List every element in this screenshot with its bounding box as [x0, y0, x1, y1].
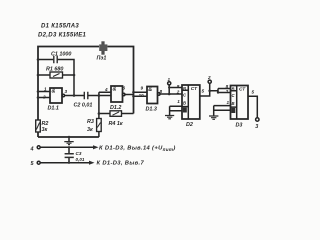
svg-text:D1 К155ЛА3: D1 К155ЛА3	[41, 24, 79, 30]
svg-text:1: 1	[168, 77, 171, 82]
svg-text:9: 9	[141, 85, 144, 90]
svg-text:C3: C3	[76, 151, 82, 156]
svg-text:3: 3	[65, 89, 68, 94]
svg-text:СТ: СТ	[239, 87, 246, 93]
svg-text:2: 2	[176, 90, 180, 95]
svg-text:D1.2: D1.2	[110, 105, 121, 111]
svg-text:C1 1000: C1 1000	[51, 52, 71, 58]
svg-text:5: 5	[252, 90, 255, 95]
svg-text:&: &	[52, 89, 56, 95]
svg-text:В: В	[232, 101, 235, 106]
svg-text:D3: D3	[236, 122, 243, 128]
svg-text:D1.1: D1.1	[48, 106, 59, 112]
svg-text:1: 1	[227, 100, 230, 105]
svg-text:К D1-D3, Выв.7: К D1-D3, Выв.7	[97, 161, 145, 167]
svg-text:Пэ1: Пэ1	[97, 55, 107, 61]
svg-text:0,01: 0,01	[76, 157, 85, 162]
svg-text:D2: D2	[186, 122, 193, 128]
svg-text:2: 2	[225, 89, 229, 94]
svg-text:3: 3	[255, 124, 258, 130]
svg-text:5: 5	[202, 88, 205, 93]
svg-text:К D1-D3, Выв.14 (+Uпит): К D1-D3, Выв.14 (+Uпит)	[99, 145, 176, 152]
svg-text:3к: 3к	[42, 127, 48, 133]
svg-text:1: 1	[177, 99, 180, 104]
svg-text:4: 4	[104, 87, 108, 92]
svg-text:2: 2	[42, 95, 46, 100]
svg-text:R3: R3	[87, 119, 94, 125]
svg-text:&: &	[113, 87, 117, 93]
svg-text:СТ: СТ	[191, 86, 198, 92]
svg-text:R4 1к: R4 1к	[109, 121, 123, 127]
svg-text:6: 6	[123, 86, 126, 91]
svg-text:R1 680: R1 680	[46, 67, 63, 73]
svg-text:3к: 3к	[87, 127, 93, 133]
svg-text:8: 8	[177, 84, 180, 89]
svg-text:В: В	[183, 101, 186, 106]
svg-text:8: 8	[160, 89, 163, 94]
svg-text:C2 0,01: C2 0,01	[74, 103, 93, 109]
svg-text:D2,D3 К155ИЕ1: D2,D3 К155ИЕ1	[38, 33, 87, 39]
svg-text:2: 2	[207, 75, 211, 80]
svg-text:4: 4	[30, 147, 34, 153]
svg-text:&: &	[148, 87, 152, 93]
svg-text:D1.3: D1.3	[146, 107, 157, 113]
svg-text:1: 1	[44, 86, 47, 91]
svg-text:10: 10	[139, 93, 145, 98]
